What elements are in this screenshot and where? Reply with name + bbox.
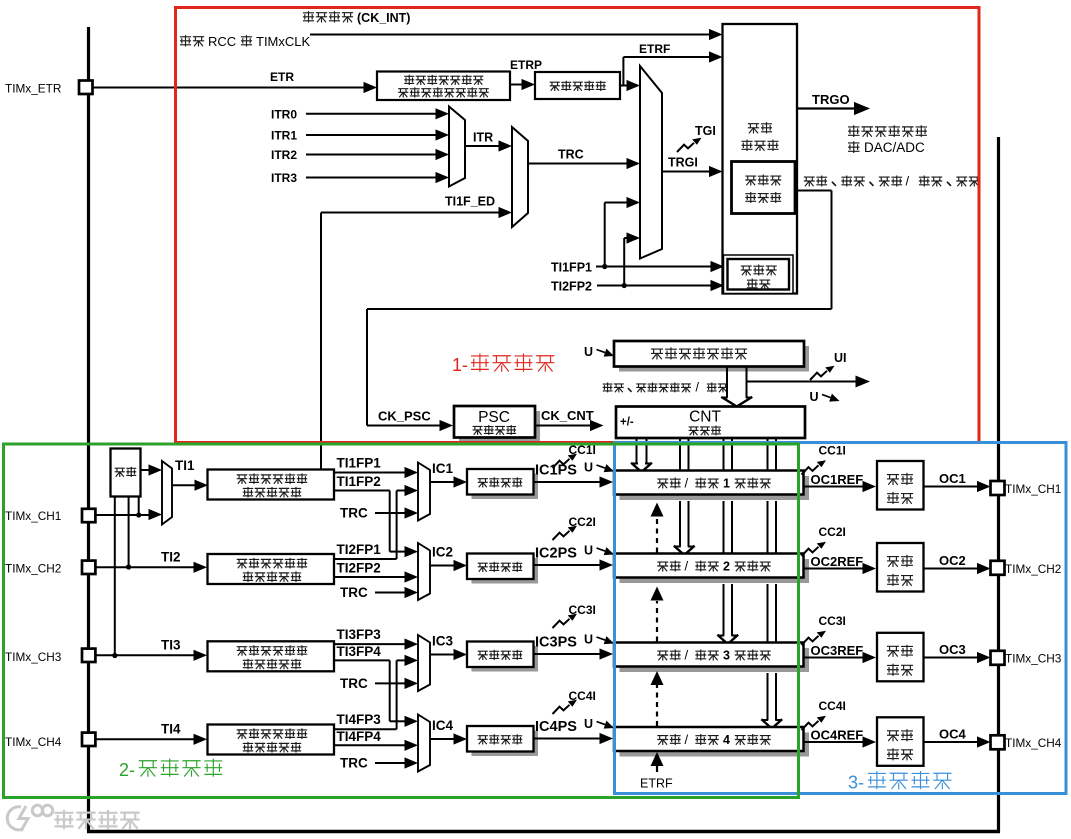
svg-text:TI3FP4: TI3FP4 [337, 644, 382, 659]
event U capture ch1 [584, 461, 614, 475]
svg-text:IC1: IC1 [432, 461, 454, 476]
wire reload to CNT double arrow [726, 367, 728, 398]
label 内部时钟 (CK_INT) [304, 12, 314, 22]
svg-text:CC3I: CC3I [819, 614, 846, 628]
wire ETRP [510, 84, 523, 86]
box CNT counter [616, 407, 805, 439]
box prescaler IC3 [467, 642, 534, 668]
event U capture ch3 [584, 633, 614, 647]
box output control 2 [877, 543, 924, 592]
wire TI1F_ED [320, 213, 322, 470]
event U cnt [810, 390, 840, 404]
wire xor input CH1 [138, 497, 140, 516]
svg-text:TGI: TGI [695, 124, 716, 138]
box output control 3 [877, 633, 924, 682]
svg-text:/: / [906, 174, 910, 189]
svg-text:RCC: RCC [208, 34, 236, 49]
svg-text:/: / [685, 648, 689, 663]
box prescaler IC1 [467, 469, 534, 495]
svg-text:OC4: OC4 [939, 727, 967, 742]
border compare output blue [615, 443, 1067, 794]
svg-text:TI1FP1: TI1FP1 [551, 261, 592, 275]
box output control 4 [877, 717, 924, 766]
svg-text:1-: 1- [452, 355, 468, 375]
svg-text:ITR2: ITR2 [271, 148, 297, 162]
box auto reload register [614, 341, 804, 367]
pad TIMx_CH2 left [82, 561, 95, 574]
node CH1 xor tap [136, 512, 141, 517]
box input filter edge detector ch3 [208, 641, 335, 671]
node CH2 xor tap [126, 564, 131, 569]
arrow CC1I zigzag left [553, 454, 578, 468]
arrow CC3I zigzag right [802, 631, 827, 645]
svg-text:TIMx_CH2: TIMx_CH2 [5, 562, 61, 576]
svg-text:IC3: IC3 [432, 634, 454, 649]
wire TRC ch4 [375, 762, 405, 764]
svg-text:CNT: CNT [689, 409, 721, 426]
svg-text:IC4PS: IC4PS [535, 719, 577, 735]
wire ITR3 [306, 177, 436, 179]
mux IC3 selector [418, 635, 430, 691]
svg-text:TIMx_CH1: TIMx_CH1 [5, 509, 61, 523]
pad TIMx_CH4 left [82, 733, 95, 746]
svg-text:TI2FP2: TI2FP2 [337, 561, 381, 576]
pad TIMx_CH3 left [82, 649, 95, 662]
wire OC2REF [804, 568, 864, 570]
label to DAC/ADC [849, 142, 859, 153]
label 来自 RCC 的 TIMxCLK [181, 36, 191, 46]
wire ITR1 [306, 134, 436, 136]
arrow CC4I zigzag right [802, 716, 827, 730]
label reset enable updown count [804, 177, 814, 186]
mux TI1 selector [162, 461, 172, 525]
wire OC2 [924, 568, 978, 570]
svg-text:TIMx_CH3: TIMx_CH3 [1005, 652, 1062, 666]
event U capture ch2 [584, 544, 614, 558]
arrow TGI zigzag [677, 138, 702, 152]
svg-text:TIMxCLK: TIMxCLK [256, 34, 311, 49]
svg-text:TIMx_CH3: TIMx_CH3 [5, 650, 62, 664]
box prescaler IC2 [467, 554, 534, 580]
svg-text:UI: UI [834, 351, 847, 365]
svg-text:TIMx_CH4: TIMx_CH4 [1005, 736, 1062, 750]
wire TI1 to filter [172, 484, 196, 486]
wire OC4 [924, 741, 978, 743]
mux IC4 selector [418, 715, 430, 772]
wire TRC ch2 [375, 592, 405, 594]
wire IC4 [430, 738, 454, 740]
box prescaler IC4 [467, 726, 534, 752]
svg-text:TI2: TI2 [161, 549, 181, 564]
svg-text:TI2FP2: TI2FP2 [551, 280, 592, 294]
label to other timers [849, 126, 859, 137]
svg-text:OC1REF: OC1REF [811, 472, 864, 487]
mux IC2 selector [418, 543, 430, 600]
svg-text:IC4: IC4 [432, 718, 454, 733]
svg-text:TRC: TRC [558, 148, 584, 162]
wire xor output TI1 [141, 469, 151, 471]
svg-text:1: 1 [723, 477, 730, 491]
svg-text:4: 4 [723, 733, 730, 747]
wire compare dashed arrow 2 [656, 601, 658, 642]
event U capture ch4 [584, 717, 614, 731]
svg-text:CC4I: CC4I [819, 699, 846, 713]
wire TI4FP4 [334, 744, 405, 746]
svg-text:OC2REF: OC2REF [811, 554, 864, 569]
wire IC1 [430, 481, 454, 483]
wire TI3FP3 [334, 643, 405, 645]
wire TI1FP1 [334, 472, 405, 474]
wire xor input CH3 [114, 497, 116, 656]
box XOR [111, 449, 141, 497]
svg-text:3: 3 [723, 649, 730, 663]
wire TRGI [662, 171, 710, 173]
wire TRC from mux [528, 163, 628, 165]
wire CNT to capture register 3 double arrow [723, 438, 725, 470]
wire OC4REF [804, 741, 864, 743]
svg-text:IC2PS: IC2PS [535, 546, 577, 562]
event U reload [584, 345, 614, 359]
box slave mode controller [732, 162, 796, 214]
node TI1FP1 junction [602, 264, 607, 269]
svg-text:TI1FP1: TI1FP1 [337, 456, 382, 471]
label stop clear updown [603, 383, 612, 392]
arrow UI zigzag [810, 366, 835, 380]
svg-text:TI1: TI1 [175, 458, 195, 473]
box capture compare register 3 shadow [620, 648, 810, 672]
svg-text:CC2I: CC2I [819, 525, 846, 539]
pad TIMx_CH1 right [991, 481, 1005, 495]
box input filter edge detector ch1 [208, 470, 335, 500]
box prescaler IC4 shadow [472, 731, 539, 757]
svg-text:CK_PSC: CK_PSC [378, 409, 431, 424]
wire ETRF to trigger controller [620, 85, 623, 87]
svg-text:TIMx_CH4: TIMx_CH4 [5, 735, 62, 749]
box capture compare register 1 shadow [620, 476, 810, 500]
wire IC1PS [534, 481, 601, 483]
wire TI2FP2 to mux [623, 238, 625, 286]
wire OC1REF [804, 486, 864, 488]
arrow CC2I zigzag right [802, 542, 827, 556]
svg-text:OC3REF: OC3REF [811, 643, 864, 658]
svg-text:2: 2 [723, 560, 730, 574]
svg-text:TI1FP2: TI1FP2 [337, 474, 381, 489]
wire ITR0 [306, 113, 436, 115]
wire TI3 [95, 654, 194, 656]
arrow CC2I zigzag left [553, 526, 578, 540]
svg-text:IC3PS: IC3PS [535, 635, 577, 651]
svg-text:ITR1: ITR1 [271, 129, 297, 143]
svg-text:TI3: TI3 [161, 637, 181, 652]
svg-text:ITR: ITR [473, 131, 493, 145]
wire OC3REF [804, 657, 864, 659]
wire xor input CH2 [128, 497, 130, 568]
svg-text:IC2: IC2 [432, 545, 453, 560]
border input capture green [4, 444, 799, 798]
svg-text:OC4REF: OC4REF [811, 728, 864, 743]
svg-text:OC3: OC3 [939, 642, 966, 657]
svg-text:ITR0: ITR0 [271, 107, 297, 121]
wire TI2FP1 cross up [334, 558, 397, 560]
node TI2FP2 junction [622, 283, 627, 288]
svg-text:/: / [685, 476, 689, 491]
wire right chip bus [997, 137, 1000, 832]
svg-text:TI1F_ED: TI1F_ED [445, 195, 495, 209]
wire CNT to capture register 4 double arrow [767, 438, 769, 470]
box input filter edge detector ch2 [208, 554, 335, 584]
wire TI4FP3 cross up [334, 728, 397, 730]
arrow CC3I zigzag left [553, 614, 578, 628]
box capture compare register 2 shadow [620, 559, 810, 583]
box prescaler IC3 shadow [472, 646, 539, 672]
svg-text:TIMx_CH1: TIMx_CH1 [1005, 482, 1061, 496]
svg-text:ITR3: ITR3 [271, 171, 297, 185]
svg-text:TRC: TRC [340, 756, 368, 771]
box input filter edge detector ch4 [208, 725, 335, 755]
wire TI4 [95, 738, 194, 740]
wire left chip bus [87, 27, 90, 832]
svg-text:/: / [696, 381, 700, 395]
mux TRC selector [512, 127, 528, 227]
border time base unit red [176, 8, 980, 443]
svg-text:TI4: TI4 [161, 721, 181, 736]
svg-text:OC1: OC1 [939, 471, 966, 486]
arrow CC1I zigzag right [802, 460, 827, 474]
box capture compare register 2 [614, 554, 804, 578]
box encoder interface [724, 255, 794, 294]
wire CNT to capture register 1 double arrow [636, 438, 638, 463]
wire CK_INT internal clock [310, 34, 710, 36]
wire OC3 [924, 657, 978, 659]
pad TIMx_CH4 right [991, 735, 1005, 749]
wire TI3FP4 cross down [334, 659, 390, 661]
wire TRGO [797, 107, 854, 109]
svg-text:TI4FP4: TI4FP4 [337, 729, 382, 744]
svg-text:ETRF: ETRF [639, 42, 670, 56]
box input filter ETR [535, 72, 620, 99]
wire bottom chip bus [87, 830, 1000, 833]
box capture compare register 3 [614, 643, 804, 667]
wire TI1FP2 cross down [334, 490, 390, 492]
pad TIMx_ETR [79, 81, 93, 95]
svg-text:TRC: TRC [340, 676, 368, 691]
arrow CC4I zigzag left [553, 700, 578, 714]
wire CNT to capture register 2 double arrow [679, 438, 681, 470]
svg-text:ETR: ETR [270, 70, 294, 84]
wire ETRF to capture register 4 [656, 766, 658, 772]
svg-text:TI4FP3: TI4FP3 [337, 712, 382, 727]
box output control 1 [877, 461, 924, 510]
wire ITR [465, 145, 499, 147]
svg-text:TRC: TRC [340, 585, 368, 600]
wire OC1 [924, 486, 978, 488]
wire IC2 [430, 565, 454, 567]
box trigger controller U1 [723, 24, 798, 294]
svg-text:3-: 3- [848, 773, 864, 793]
box PSC prescaler [454, 406, 535, 438]
mux trigger TRGI selector [640, 66, 662, 259]
wire IC2PS [534, 564, 601, 566]
svg-text:TI3FP3: TI3FP3 [337, 627, 382, 642]
svg-text:TIMx_CH2: TIMx_CH2 [1005, 562, 1061, 576]
box auto reload register shadow [619, 346, 809, 372]
watermark logo [7, 805, 52, 831]
box PSC prescaler shadow [459, 411, 540, 443]
wire ETR [93, 87, 365, 89]
svg-text:+/-: +/- [620, 417, 634, 429]
wire UI event line [747, 381, 857, 383]
mux IC1 selector [418, 463, 430, 521]
wire compare dashed arrow 3 [656, 685, 658, 726]
svg-text:TRGO: TRGO [812, 92, 850, 107]
wire ETRP to trigger mux [620, 85, 628, 87]
svg-text:ETRP: ETRP [510, 58, 542, 72]
svg-text:DAC/ADC: DAC/ADC [864, 140, 925, 155]
svg-text:CC1I: CC1I [819, 444, 846, 458]
svg-text:2-: 2- [119, 760, 135, 780]
wire IC3 [430, 654, 454, 656]
wire TI1FP1 to mux [604, 203, 606, 267]
svg-text:TIMx_ETR: TIMx_ETR [5, 82, 61, 96]
pad TIMx_CH1 left [82, 509, 95, 522]
box polarity selection edge detector prescaler [377, 72, 510, 101]
svg-text:TRGI: TRGI [668, 156, 698, 170]
node CH3 xor tap [112, 653, 117, 658]
wire IC4PS [534, 738, 601, 740]
svg-text:/: / [685, 559, 689, 574]
box prescaler IC2 shadow [472, 558, 539, 584]
wire compare dashed arrow 1 [656, 517, 658, 553]
svg-text:CK_CNT: CK_CNT [541, 408, 594, 423]
wire TI2FP2 [334, 576, 405, 578]
pad TIMx_CH2 right [991, 561, 1005, 575]
mux ITR selector [449, 107, 465, 187]
svg-text:TI2FP1: TI2FP1 [337, 542, 382, 557]
box capture compare register 4 shadow [620, 733, 810, 757]
watermark text [56, 811, 73, 828]
svg-text:TRC: TRC [340, 506, 368, 521]
pad TIMx_CH3 right [991, 651, 1005, 665]
wire TRC ch3 [375, 682, 405, 684]
wire TI2 [95, 566, 194, 568]
wire reset/enable/count to clock [795, 190, 832, 192]
wire IC3PS [534, 653, 601, 655]
wire CK_CNT [535, 425, 590, 427]
wire TIMx_CH1 to mux [95, 514, 149, 516]
svg-text:OC2: OC2 [939, 553, 966, 568]
box prescaler IC1 shadow [472, 474, 539, 500]
wire ITR2 [306, 154, 436, 156]
svg-text:/: / [685, 732, 689, 747]
wire TRC ch1 [375, 512, 405, 514]
box capture compare register 1 [614, 471, 804, 495]
svg-text:ETRF: ETRF [640, 777, 673, 791]
svg-text:(CK_INT): (CK_INT) [357, 11, 410, 25]
box capture compare register 4 [614, 727, 804, 751]
wire TI1FP1 to encoder [596, 266, 712, 268]
svg-text:PSC: PSC [478, 409, 510, 426]
wire TI2FP2 to encoder [597, 285, 712, 287]
